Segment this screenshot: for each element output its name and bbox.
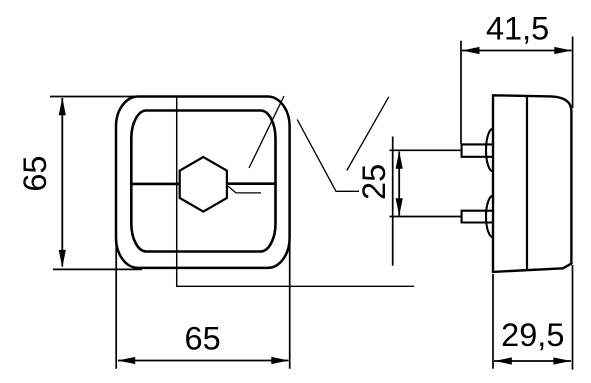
dim 29,5 extension left: [492, 274, 494, 369]
dim 29,5 line: [494, 360, 571, 362]
dim 41,5 extension right: [572, 37, 574, 109]
dim 25 line: [398, 152, 400, 216]
centerline split right segment: [227, 182, 276, 185]
bottom dim 65 arrow right: [271, 357, 289, 364]
svg-text:41,5: 41,5: [486, 11, 549, 47]
left dim 65 line: [61, 98, 63, 267]
dim 29,5 arrow right: [553, 357, 571, 364]
left dim 65 extension top: [50, 96, 140, 98]
left dim 65 arrow up: [59, 98, 66, 116]
dim 29,5 extension right: [572, 265, 574, 370]
bottom dim 65 extension left: [115, 238, 117, 369]
bottom dim 65 line: [118, 360, 289, 362]
front view inner rounded square: [131, 111, 275, 252]
bottom dim 65 arrow left: [118, 357, 136, 364]
dim 29,5 arrow left: [494, 357, 512, 364]
dim 41,5 arrow left: [462, 47, 480, 54]
dim 25 extension pin1: [390, 149, 462, 151]
left dim 65 extension bottom: [53, 268, 142, 270]
side view body outline: [493, 95, 571, 272]
side view pin1: [462, 144, 493, 156]
side view dome pin2: [486, 196, 493, 238]
svg-text:65: 65: [185, 320, 221, 356]
dim 41,5 extension left: [460, 41, 462, 145]
leader from hexagon: [227, 185, 261, 193]
left dim 65 arrow down: [59, 250, 66, 268]
thin vertical partition line: [177, 97, 414, 286]
leader line D: [347, 97, 389, 171]
side view dome pin1: [486, 129, 493, 172]
side view lens divider: [526, 96, 528, 270]
dim 25 tall extension line: [392, 137, 394, 266]
leader line A: [249, 96, 284, 168]
dim 25 arrow down: [396, 198, 403, 216]
centerline split left segment: [132, 183, 181, 186]
svg-text:29,5: 29,5: [501, 317, 564, 353]
dim 41,5 arrow right: [554, 47, 572, 54]
dim 41,5 line: [462, 50, 572, 52]
side view pin2: [462, 211, 493, 223]
bottom dim 65 extension right: [289, 238, 291, 369]
front view outer rounded square: [116, 97, 290, 268]
dim 25 extension pin2: [390, 216, 462, 218]
hexagon screw head: [180, 157, 227, 212]
leader line B: [297, 120, 359, 192]
svg-text:65: 65: [17, 156, 53, 192]
dim 25 arrow up: [396, 151, 403, 169]
svg-text:25: 25: [356, 164, 392, 200]
